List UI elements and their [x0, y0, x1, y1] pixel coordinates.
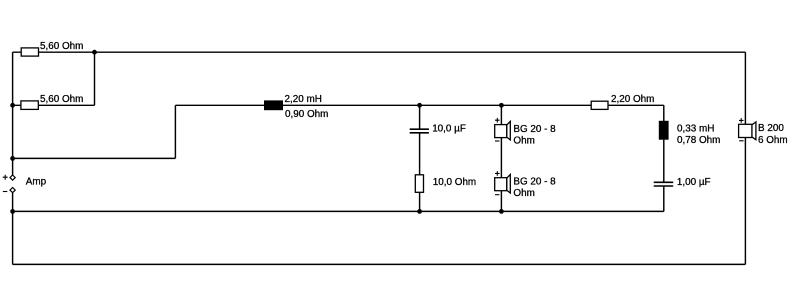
svg-text:B 200: B 200: [758, 123, 784, 134]
svg-text:BG 20 - 8: BG 20 - 8: [513, 124, 556, 135]
svg-text:Ohm: Ohm: [513, 136, 534, 147]
svg-text:Amp: Amp: [26, 176, 47, 187]
svg-text:1,00 µF: 1,00 µF: [677, 177, 711, 188]
svg-text:5,60 Ohm: 5,60 Ohm: [40, 41, 83, 52]
svg-text:10,0 Ohm: 10,0 Ohm: [433, 177, 476, 188]
svg-text:10,0 µF: 10,0 µF: [432, 124, 466, 135]
svg-text:2,20 mH: 2,20 mH: [285, 94, 322, 105]
svg-text:5,60 Ohm: 5,60 Ohm: [40, 94, 83, 105]
svg-text:Ohm: Ohm: [513, 188, 534, 199]
svg-text:2,20 Ohm: 2,20 Ohm: [611, 94, 654, 105]
svg-text:BG 20 - 8: BG 20 - 8: [513, 176, 556, 187]
svg-text:0,78 Ohm: 0,78 Ohm: [677, 135, 720, 146]
svg-text:0,90 Ohm: 0,90 Ohm: [285, 109, 328, 120]
svg-text:6 Ohm: 6 Ohm: [758, 135, 788, 146]
svg-text:0,33 mH: 0,33 mH: [677, 124, 714, 135]
